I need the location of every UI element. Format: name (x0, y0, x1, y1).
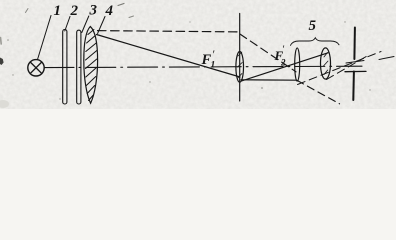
central lens (ellipse) (236, 52, 244, 83)
eyepiece field lens 5a (thin) (295, 48, 300, 81)
filter plate 3 (77, 30, 81, 104)
svg-text:4: 4 (105, 3, 114, 19)
svg-text:2: 2 (280, 58, 286, 68)
dashed ray D4a (rising, crossing screen) (298, 52, 382, 85)
paper background (0, 0, 396, 109)
dash beyond screen (379, 57, 394, 60)
tick bar on screen upper (346, 61, 364, 64)
svg-text:1: 1 (211, 61, 216, 71)
scan artifact left edge upper (0, 38, 2, 45)
brace over lens group 5 (291, 38, 340, 46)
central lens hatching (238, 52, 243, 78)
leader line 2 (65, 17, 70, 32)
scan mark dash a (118, 4, 124, 6)
svg-text:3: 3 (89, 2, 98, 18)
dashed ray D1 (lens4 top to lens plane, horizontal) (98, 31, 239, 32)
lens 4 hatching (86, 30, 97, 101)
dashed ray D2 (down-right from lens plane) (240, 34, 296, 72)
lens 5b hatching (324, 53, 329, 75)
dashed ray D3 (down-right from lens 5a) (297, 80, 340, 104)
svg-text:′: ′ (213, 47, 216, 61)
filter plate 2 (63, 30, 67, 105)
solid ray R3 (rising to lens 5) (242, 53, 329, 81)
svg-text:1: 1 (54, 3, 62, 19)
svg-text:′: ′ (283, 45, 285, 56)
lamp S (circle with X) (28, 60, 44, 76)
specks (7, 21, 370, 99)
svg-text:2: 2 (70, 3, 79, 19)
optical axis (dash-dot) (44, 66, 362, 67)
scan artifact small slash top left (26, 9, 29, 13)
leader line 1 (38, 16, 52, 60)
solid marginal ray R1 through F1' (97, 35, 241, 78)
leader line 3 (82, 16, 89, 33)
leader line 4 (98, 17, 105, 34)
condenser lens 4 (vesica with hatching) (84, 27, 98, 104)
dashed ray D4b (rising to screen) (327, 56, 369, 80)
svg-text:5: 5 (309, 18, 317, 34)
screen vertical line (353, 28, 356, 60)
tick bar on screen lower (345, 70, 366, 72)
scan artifact bottom-left smudge (0, 100, 9, 108)
central lens plane vertical line (239, 14, 241, 102)
solid ray R2 (horizontal lower beam edge) (241, 79, 297, 81)
eyepiece eye lens 5b (321, 48, 331, 79)
scan mark dash b (129, 16, 134, 18)
scan artifact left edge blob (0, 58, 4, 66)
